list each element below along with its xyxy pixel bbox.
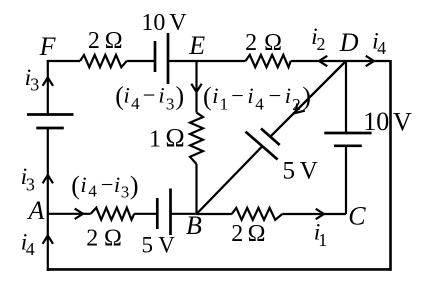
svg-text:(i1−i4−i2): (i1−i4−i2)	[203, 82, 311, 114]
battery left short plate	[36, 127, 64, 130]
wire D to top-right corner	[346, 60, 390, 62]
current arrow i4-i3 (A-B wire)	[75, 209, 83, 219]
battery 5V diagonal short plate	[261, 129, 280, 146]
svg-text:2Ω: 2Ω	[86, 226, 122, 252]
battery left long plate	[27, 113, 74, 116]
wire E to R(E-D)	[197, 60, 246, 62]
resistor 2Ω B-C	[232, 208, 282, 220]
current arrow i4 (left wire bottom)	[43, 236, 53, 244]
svg-text:10V: 10V	[141, 10, 187, 36]
svg-text:i3: i3	[21, 164, 35, 195]
resistor 2Ω A-B	[91, 208, 135, 220]
wire F to R(F-E)	[47, 60, 80, 62]
wire R to battery 10V top	[127, 60, 155, 62]
svg-text:i2: i2	[311, 24, 325, 54]
resistor 2Ω E-D	[246, 55, 291, 67]
svg-text:B: B	[186, 211, 202, 240]
svg-text:D: D	[339, 28, 359, 57]
wire R to D	[291, 60, 346, 62]
svg-text:5V: 5V	[283, 157, 318, 184]
svg-text:10: 10	[363, 107, 389, 136]
wire B up diagonal to battery 5V diagonal	[197, 146, 263, 214]
svg-text:5V: 5V	[142, 233, 176, 258]
wire R to C	[282, 213, 346, 215]
svg-text:2Ω: 2Ω	[88, 28, 123, 54]
svg-text:2Ω: 2Ω	[231, 221, 265, 247]
wire bottom edge	[47, 268, 392, 271]
svg-text:i4: i4	[372, 29, 386, 59]
battery 5V diagonal long plate	[246, 132, 278, 160]
wire battery down to C	[345, 146, 347, 214]
battery 10V top long plate	[167, 33, 170, 84]
wire right edge	[389, 60, 392, 271]
current arrow i3 upper (left wire)	[43, 78, 53, 86]
svg-text:F: F	[39, 32, 57, 61]
wire battery to E	[168, 60, 197, 62]
svg-text:i1: i1	[314, 220, 328, 250]
svg-text:i3: i3	[25, 65, 40, 95]
svg-text:i4: i4	[21, 230, 35, 260]
battery 10V top short plate	[154, 41, 157, 72]
current arrow i2 (D-E wire)	[319, 56, 327, 66]
svg-text:1Ω: 1Ω	[149, 124, 185, 153]
current arrow on diagonal (toward B)	[292, 103, 305, 116]
wire B to R(B-C)	[197, 213, 232, 215]
current arrow i1-i4-i2 (E-B wire)	[191, 84, 201, 92]
current arrow i3 lower (left wire)	[43, 175, 53, 183]
svg-text:V: V	[393, 108, 412, 137]
svg-text:2Ω: 2Ω	[245, 30, 282, 56]
wire battery left down through A to bottom-left corner	[47, 128, 49, 271]
wire F down to battery left	[47, 60, 49, 115]
battery 10V right long plate	[324, 132, 371, 135]
current arrow i1 (B-C wire)	[316, 209, 324, 219]
resistor 2Ω F-E	[80, 55, 127, 67]
current arrow i4 (D to corner wire)	[366, 56, 374, 66]
wire D down to battery 10V right	[345, 61, 347, 133]
svg-text:(i4−i3): (i4−i3)	[115, 82, 184, 114]
battery 10V right short plate	[334, 144, 362, 147]
svg-text:(i4−i3): (i4−i3)	[71, 171, 138, 202]
wire R 1Ω down to B	[195, 164, 197, 214]
resistor 1Ω	[190, 113, 203, 165]
battery 5V bottom short plate	[156, 198, 159, 229]
svg-text:E: E	[188, 31, 205, 60]
battery 5V bottom long plate	[169, 189, 172, 236]
svg-text:C: C	[348, 202, 366, 231]
wire A to R(A-B)	[48, 213, 91, 215]
wire battery to B	[171, 213, 197, 215]
wire battery diagonal up to D	[270, 61, 346, 137]
wire E down to R 1Ω	[195, 61, 197, 113]
svg-text:A: A	[27, 196, 45, 225]
wire R to battery 5V bottom	[134, 213, 157, 215]
